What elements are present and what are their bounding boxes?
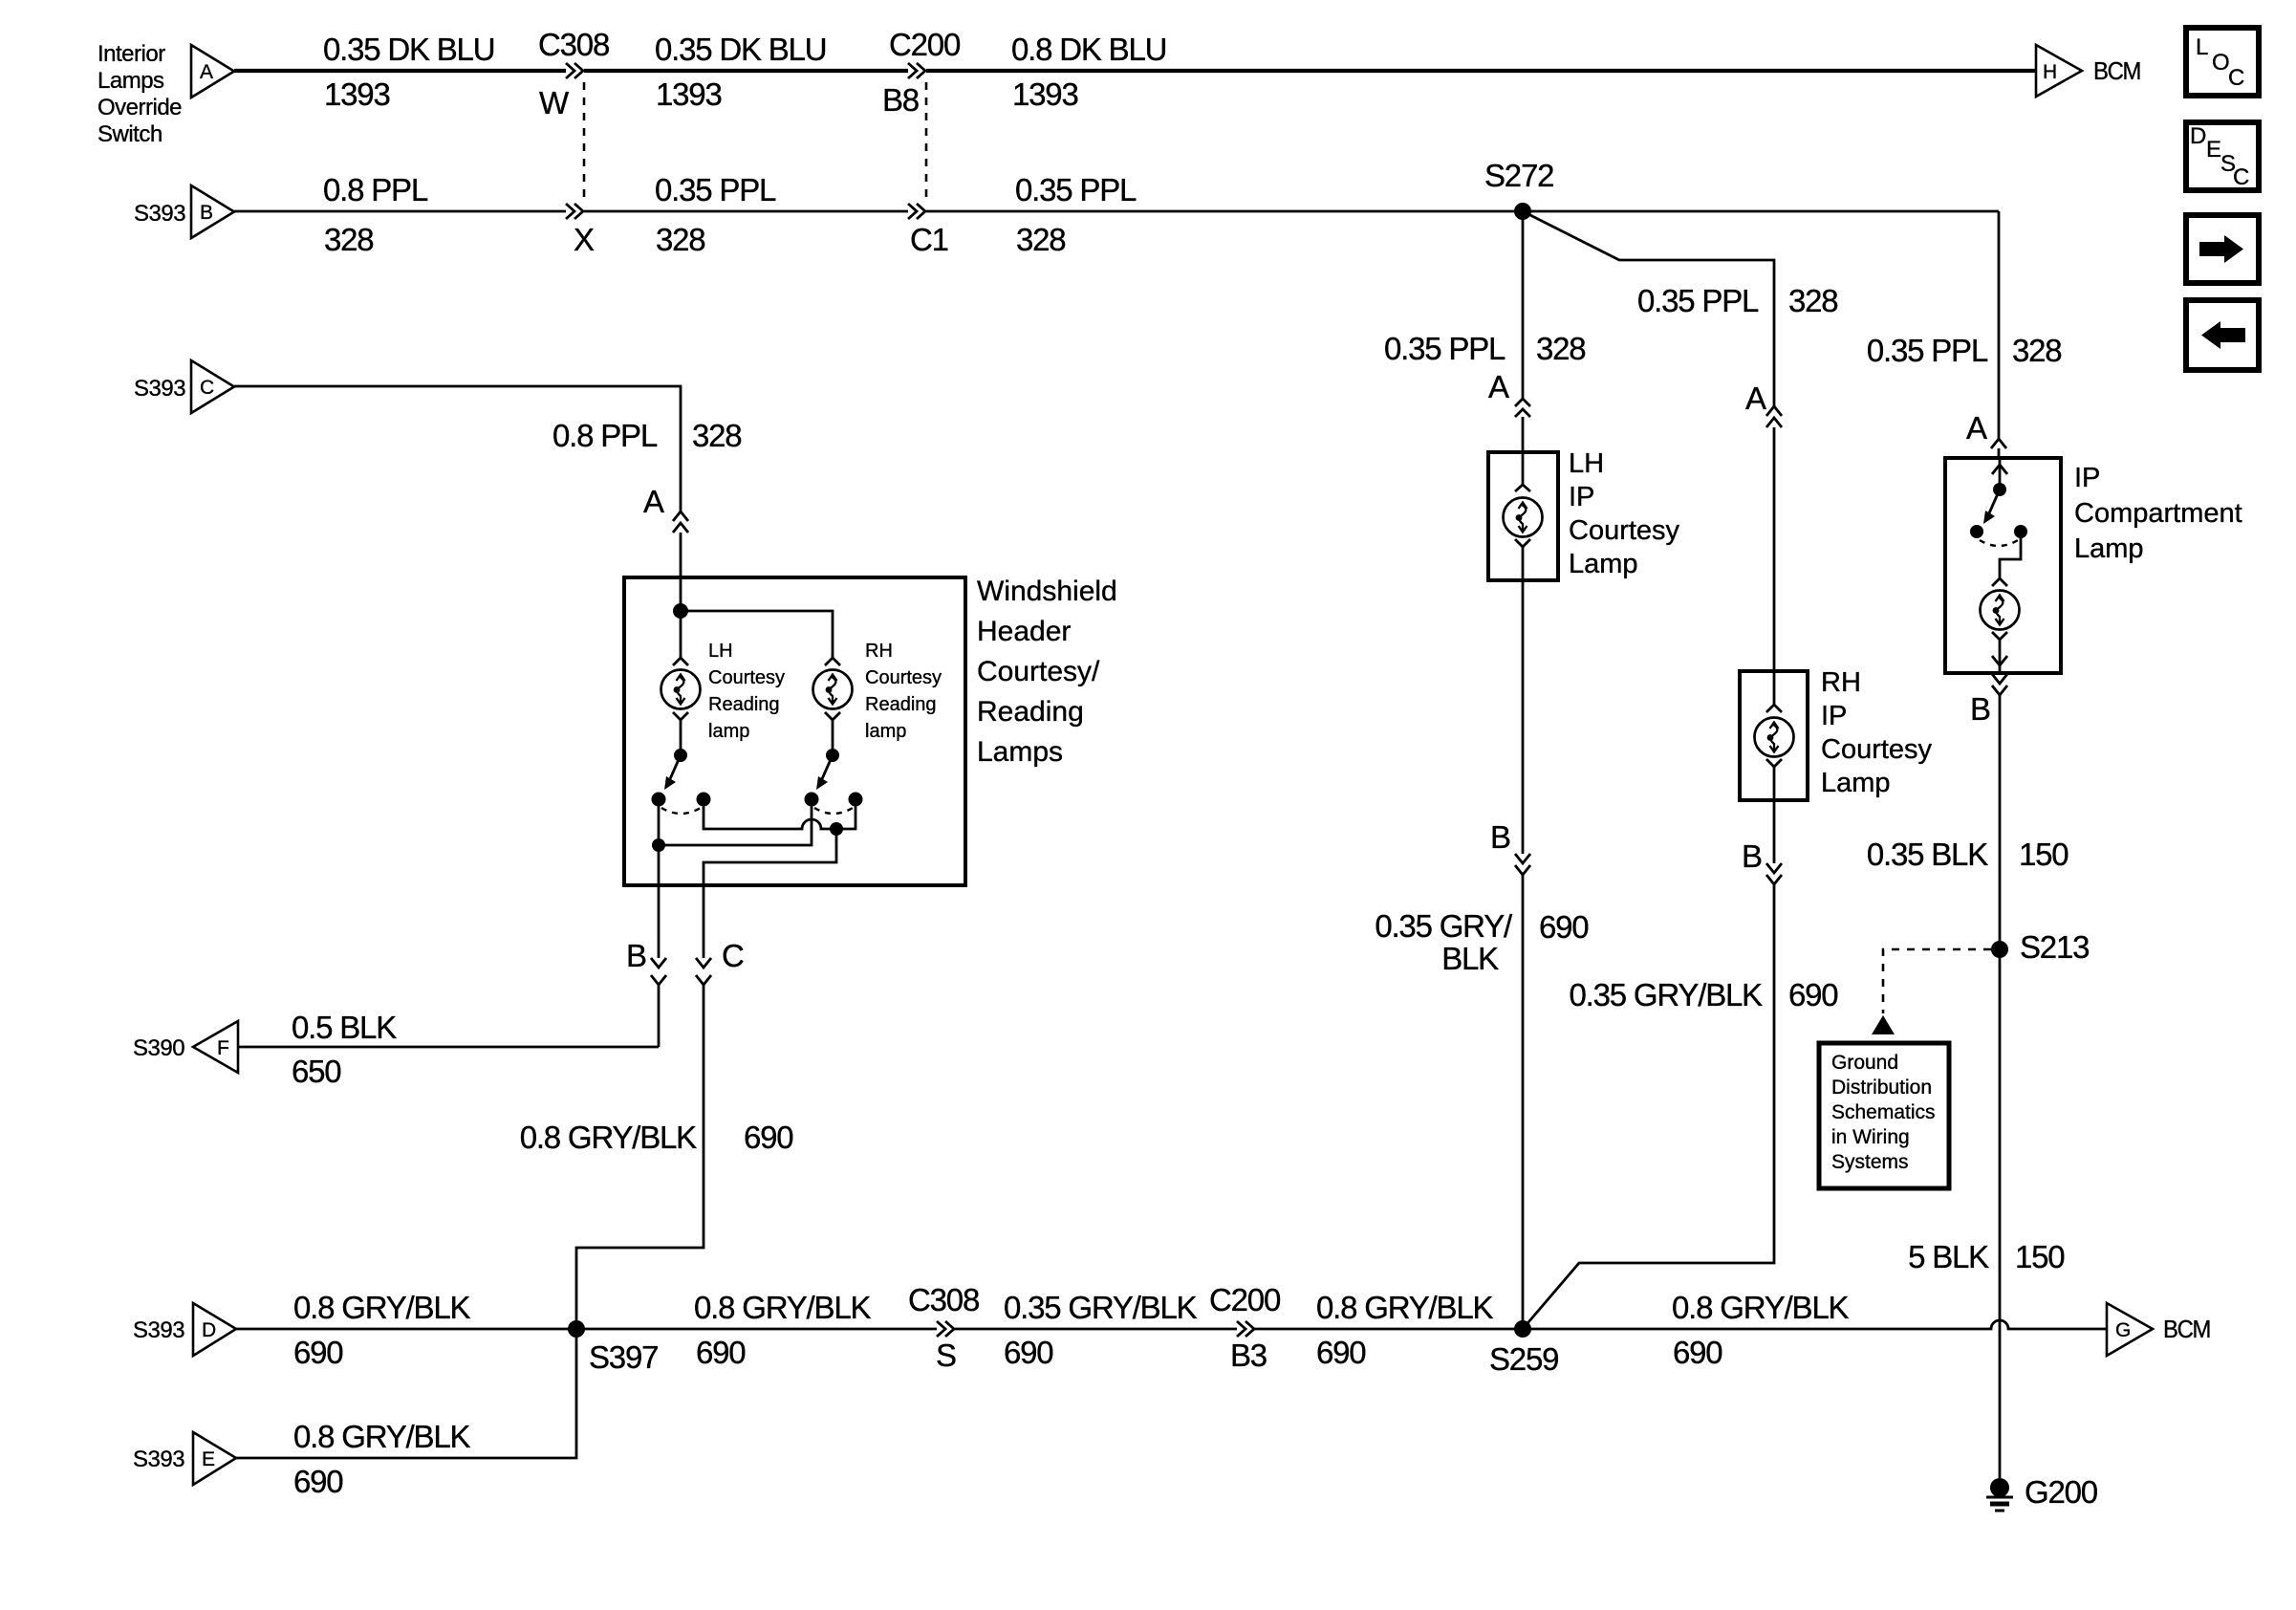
svg-text:150: 150 [2015,1239,2065,1274]
svg-text:C308: C308 [908,1282,979,1317]
svg-text:0.8 DK BLU: 0.8 DK BLU [1011,32,1166,67]
wire B3 : 0.35 PPL 328 [926,210,1523,213]
svg-text:Reading: Reading [977,696,1084,728]
RH courtesy reading lamp [825,658,840,665]
connector triangle H to BCM [2036,45,2082,97]
svg-text:A: A [200,61,213,83]
svg-text:lamp: lamp [865,721,906,742]
connector triangle F [193,1021,238,1073]
svg-text:328: 328 [656,222,704,257]
svg-text:A: A [1488,369,1509,404]
svg-text:B3: B3 [1230,1338,1267,1373]
svg-text:IP: IP [2074,463,2100,493]
wire F : 0.5 BLK 650 [238,1046,659,1049]
svg-text:Lamp: Lamp [2074,533,2144,564]
svg-text:0.8 GRY/BLK: 0.8 GRY/BLK [520,1120,697,1155]
wire RH IP return : 0.35 GRY/BLK 690 to S259 [1523,884,1774,1329]
svg-text:328: 328 [692,418,741,453]
svg-text:690: 690 [293,1335,343,1370]
wire D3 : 0.35 GRY/BLK 690 [954,1328,1237,1331]
splice S272 [1514,203,1531,220]
svg-text:W: W [539,85,570,120]
svg-text:Courtesy: Courtesy [708,667,785,688]
svg-text:0.35 GRY/BLK: 0.35 GRY/BLK [1570,977,1764,1012]
svg-text:690: 690 [1539,909,1589,945]
svg-text:0.35 GRY/BLK: 0.35 GRY/BLK [1004,1290,1198,1325]
wire B1 : 0.8 PPL 328 [234,210,566,213]
svg-text:0.35 DK BLU: 0.35 DK BLU [323,32,494,67]
wire A2 : 0.35 DK BLU 1393 [584,69,908,73]
IP compartment lamp symbol [1992,578,2007,586]
svg-text:328: 328 [324,222,373,257]
connector triangle C [191,360,234,413]
svg-text:IP: IP [1821,701,1847,731]
back button (left arrow) [2186,300,2259,370]
svg-text:C200: C200 [1209,1282,1281,1317]
svg-text:Override: Override [97,95,182,120]
wire A1 : 0.35 DK BLU 1393 [234,69,566,73]
svg-text:Ground: Ground [1831,1052,1898,1074]
svg-text:0.8 GRY/BLK: 0.8 GRY/BLK [1672,1290,1849,1325]
pin B of IP compartment lamp [1992,674,2007,684]
LH courtesy reading lamp [673,658,688,665]
svg-text:E: E [202,1448,215,1470]
switch lamp bus wire (C net) with hop [704,799,856,829]
svg-text:Distribution: Distribution [1831,1077,1932,1099]
svg-text:0.8 GRY/BLK: 0.8 GRY/BLK [293,1419,470,1454]
svg-text:H: H [2043,61,2057,83]
svg-text:O: O [2212,50,2229,76]
junction node inside box [673,603,688,619]
svg-text:S390: S390 [133,1035,184,1061]
svg-text:Courtesy: Courtesy [865,667,942,688]
svg-text:S393: S393 [134,201,185,227]
connector C308 row B chevrons [566,204,574,219]
svg-text:0.8 GRY/BLK: 0.8 GRY/BLK [694,1290,871,1325]
svg-text:0.35 PPL: 0.35 PPL [655,172,776,207]
LH lamp switch [674,749,687,762]
svg-text:C: C [200,377,214,399]
svg-text:328: 328 [1016,222,1065,257]
svg-text:S397: S397 [589,1339,658,1375]
splice S259 [1514,1320,1531,1338]
RH IP lamp symbol [1773,671,1776,705]
connector triangle E [193,1432,236,1485]
svg-text:0.8 GRY/BLK: 0.8 GRY/BLK [293,1290,470,1325]
svg-text:C200: C200 [889,27,961,62]
svg-text:650: 650 [292,1054,341,1089]
pin B of RH IP courtesy lamp [1773,800,1776,863]
svg-text:Courtesy: Courtesy [1821,734,1933,765]
svg-text:C1: C1 [910,222,948,257]
svg-text:Systems: Systems [1831,1151,1909,1173]
svg-text:0.35 PPL: 0.35 PPL [1384,331,1505,366]
svg-text:S272: S272 [1484,158,1553,193]
svg-text:690: 690 [1004,1335,1053,1370]
svg-text:S: S [936,1338,956,1373]
svg-text:Lamps: Lamps [977,736,1063,768]
svg-text:1393: 1393 [1012,76,1078,112]
connector triangle B [191,185,234,238]
svg-text:A: A [643,484,664,519]
connector C200 dashed link [925,82,928,201]
svg-text:C: C [2228,65,2244,91]
svg-text:LH: LH [1569,448,1604,479]
svg-text:B: B [200,202,213,224]
wire E : 0.8 GRY/BLK 690 up to S397 [236,1329,576,1458]
dashed reference link to ground distribution note [1883,949,1991,1013]
svg-text:0.35 GRY/: 0.35 GRY/ [1375,908,1513,944]
svg-text:328: 328 [1536,331,1585,366]
svg-text:690: 690 [696,1335,746,1370]
svg-text:690: 690 [1788,977,1838,1012]
svg-text:Reading: Reading [708,694,780,715]
svg-text:C: C [2233,164,2249,190]
wire to LH lamp [680,611,682,658]
connector triangle G to BCM [2107,1303,2153,1356]
svg-text:0.35 PPL: 0.35 PPL [1867,333,1988,368]
svg-text:Header: Header [977,616,1071,647]
svg-text:0.8 PPL: 0.8 PPL [323,172,428,207]
wire B2 : 0.35 PPL 328 [584,210,908,213]
svg-text:S393: S393 [133,1447,184,1472]
svg-text:D: D [202,1319,216,1341]
connector triangle A [191,45,234,98]
DESC button [2186,122,2259,190]
wire IP compartment feed : 0.35 PPL 328 [1998,211,2001,439]
svg-text:C: C [722,938,744,973]
svg-text:B: B [626,938,646,973]
svg-text:A: A [1745,381,1766,416]
LH IP courtesy lamp box [1488,452,1558,580]
connector C308 row A chevrons [566,63,574,78]
wire LH IP feed : 0.35 PPL 328 [1522,211,1525,400]
svg-text:0.35 PPL: 0.35 PPL [1015,172,1137,207]
svg-text:RH: RH [865,641,893,662]
splice S397 [568,1320,585,1338]
RH lamp switch [826,749,839,762]
windshield header courtesy/reading lamps box [624,577,965,885]
svg-text:A: A [1966,410,1987,446]
svg-text:B: B [1490,819,1510,855]
svg-text:Compartment: Compartment [2074,498,2242,529]
svg-text:690: 690 [293,1464,343,1499]
svg-text:690: 690 [744,1120,793,1155]
wire 5 BLK 150 to G200 [1999,949,2002,1478]
svg-text:0.5 BLK: 0.5 BLK [292,1010,397,1045]
svg-text:BCM: BCM [2163,1315,2210,1343]
connector triangle D [193,1303,236,1356]
LH IP lamp symbol [1522,452,1525,485]
svg-text:328: 328 [2012,333,2061,368]
svg-text:Lamps: Lamps [97,68,164,94]
svg-text:B: B [1970,691,1990,727]
svg-text:Schematics: Schematics [1831,1101,1936,1123]
svg-text:328: 328 [1788,283,1837,318]
wire A3 : 0.8 DK BLU 1393 [926,69,2035,73]
wire D1 : 0.8 GRY/BLK 690 [236,1328,937,1331]
svg-text:690: 690 [1316,1335,1366,1370]
svg-text:S213: S213 [2020,929,2089,965]
connector C200 row D chevrons [1237,1321,1245,1337]
svg-text:S259: S259 [1489,1341,1558,1377]
LOC button [2186,28,2259,96]
svg-text:B: B [1742,838,1762,874]
svg-text:Reading: Reading [865,694,937,715]
svg-text:0.8 PPL: 0.8 PPL [552,418,658,453]
svg-text:Lamp: Lamp [1821,768,1891,798]
svg-text:5 BLK: 5 BLK [1908,1239,1989,1274]
svg-text:G200: G200 [2025,1474,2098,1510]
wire LH IP return : 0.35 GRY/BLK 690 to S259 [1522,875,1525,1329]
svg-text:1393: 1393 [656,76,722,112]
svg-text:1393: 1393 [324,76,390,112]
svg-text:Switch: Switch [97,121,162,147]
connector C200 row A chevrons [908,63,917,78]
svg-text:RH: RH [1821,667,1861,698]
wire D5 : 0.8 GRY/BLK 690 with hop over 5 BLK wire [1523,1320,2107,1329]
svg-text:0.35 PPL: 0.35 PPL [1637,283,1759,318]
svg-text:150: 150 [2019,837,2069,872]
svg-text:S393: S393 [134,376,185,402]
connector C200 row B chevrons [908,204,917,219]
svg-text:0.35 DK BLU: 0.35 DK BLU [655,32,826,67]
svg-text:IP: IP [1569,482,1594,512]
wire D4 : 0.8 GRY/BLK 690 [1254,1328,1523,1331]
svg-text:C308: C308 [538,27,609,62]
svg-text:G: G [2115,1319,2131,1341]
wire RH IP feed : 0.35 PPL 328 [1523,211,1774,406]
wire IP compartment return : 0.35 BLK 150 [1999,695,2002,949]
svg-text:lamp: lamp [708,721,749,742]
svg-text:X: X [574,222,595,257]
svg-text:BCM: BCM [2093,56,2140,85]
svg-text:E: E [2206,137,2221,163]
ground G200 [1990,1478,2009,1497]
ground distribution schematics note box [1819,1043,1949,1188]
svg-text:LH: LH [708,641,733,662]
splice S213 [1991,941,2008,958]
svg-text:Windshield: Windshield [977,576,1117,607]
svg-text:B8: B8 [882,82,919,118]
svg-text:Courtesy: Courtesy [1569,515,1680,546]
connector C308 row D chevrons [937,1321,945,1337]
svg-text:0.8 GRY/BLK: 0.8 GRY/BLK [1316,1290,1493,1325]
wire C1 : 0.8 PPL 328 to windshield lamps [234,386,681,511]
svg-text:D: D [2190,123,2206,149]
wire jumper to RH lamp [681,611,833,658]
IP compartment lamp switch [1999,460,2002,490]
svg-text:690: 690 [1673,1335,1722,1370]
svg-text:Lamp: Lamp [1569,549,1638,579]
svg-text:Courtesy/: Courtesy/ [977,656,1100,687]
RH IP courtesy lamp box [1740,671,1808,800]
wire B4 : S272 to IP compartment branch [1523,210,1999,213]
connector C308 dashed link [583,82,586,201]
svg-text:0.35 BLK: 0.35 BLK [1867,837,1988,872]
svg-text:L: L [2196,34,2208,60]
IP compartment lamp box [1945,458,2061,673]
switch common bus wire (B net) [658,799,661,885]
wire C-net : 0.8 GRY/BLK 690 down to S397 [576,985,704,1329]
wire into windshield box [680,533,682,611]
wire B-net down to S390 output [658,985,661,1047]
svg-text:in Wiring: in Wiring [1831,1126,1910,1148]
pin B of LH IP courtesy lamp [1522,580,1525,854]
svg-text:BLK: BLK [1441,941,1499,976]
svg-text:F: F [217,1037,229,1059]
next button (right arrow) [2186,215,2259,283]
svg-text:S393: S393 [133,1317,184,1343]
svg-text:Interior: Interior [97,41,165,67]
